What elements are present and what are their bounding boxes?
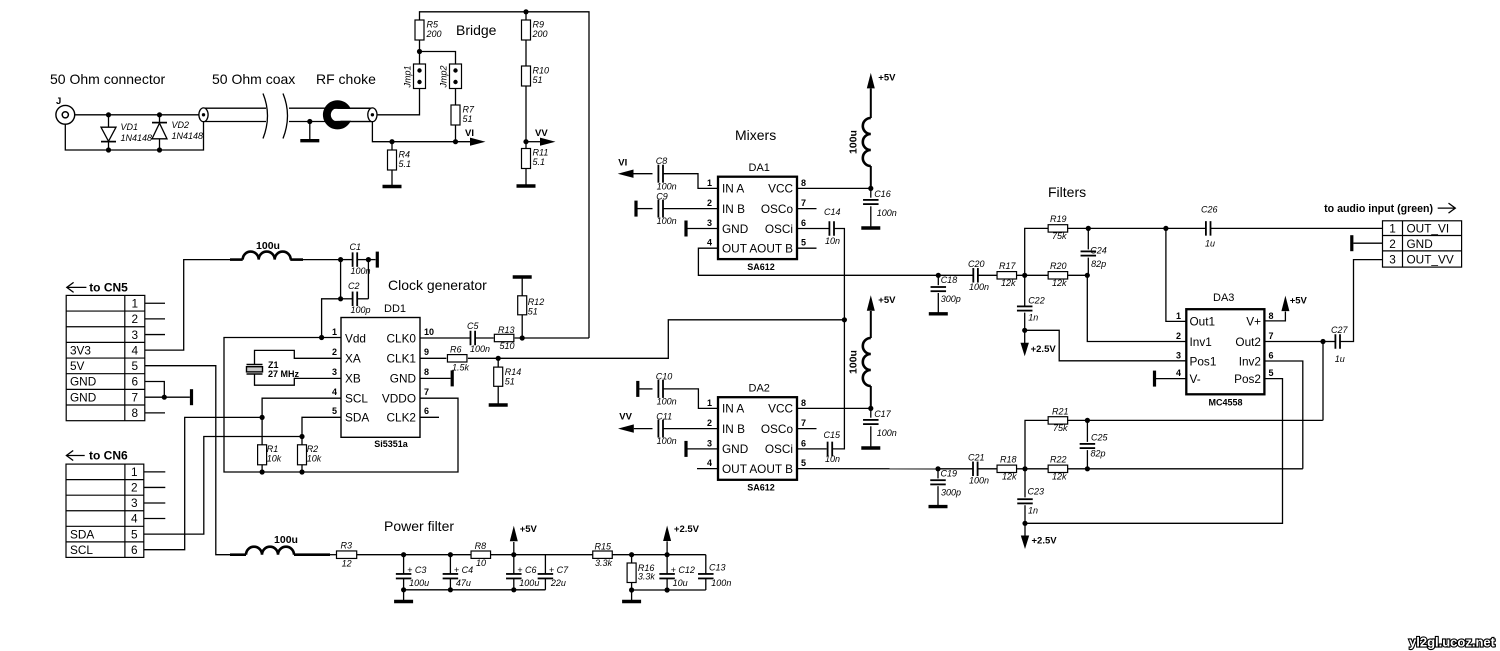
svg-text:C13: C13: [709, 563, 726, 573]
svg-text:5: 5: [132, 359, 139, 373]
svg-text:R3: R3: [341, 541, 353, 551]
svg-text:3: 3: [707, 438, 712, 448]
svg-text:MC4558: MC4558: [1208, 398, 1242, 408]
svg-text:100u: 100u: [519, 578, 539, 588]
svg-text:300p: 300p: [941, 488, 961, 498]
svg-text:100n: 100n: [969, 476, 989, 486]
svg-text:1: 1: [1389, 222, 1396, 236]
svg-text:C19: C19: [941, 469, 958, 479]
svg-text:C18: C18: [941, 275, 958, 285]
svg-text:C24: C24: [1090, 246, 1107, 256]
svg-text:5: 5: [332, 406, 337, 416]
svg-text:7: 7: [132, 390, 139, 404]
svg-text:1N4148: 1N4148: [121, 133, 153, 143]
svg-text:1: 1: [707, 178, 712, 188]
svg-text:R21: R21: [1052, 407, 1069, 417]
svg-text:4: 4: [707, 238, 712, 248]
svg-text:100u: 100u: [848, 130, 860, 154]
svg-text:VI: VI: [618, 158, 627, 169]
svg-text:1N4148: 1N4148: [172, 131, 204, 141]
svg-text:2: 2: [132, 312, 139, 326]
svg-text:Inv2: Inv2: [1239, 354, 1261, 368]
svg-text:SDA: SDA: [345, 411, 369, 425]
svg-text:SA612: SA612: [747, 483, 775, 493]
svg-text:100n: 100n: [351, 266, 371, 276]
svg-text:4: 4: [1176, 368, 1181, 378]
svg-text:J: J: [56, 96, 61, 107]
svg-text:C5: C5: [467, 321, 479, 331]
svg-text:10n: 10n: [825, 454, 840, 464]
svg-text:Clock generator: Clock generator: [388, 277, 487, 293]
svg-text:27 MHz: 27 MHz: [268, 369, 300, 379]
svg-text:GND: GND: [390, 372, 416, 386]
svg-text:C27: C27: [1331, 325, 1349, 335]
svg-text:8: 8: [424, 367, 429, 377]
svg-text:DA3: DA3: [1213, 292, 1234, 304]
svg-text:3.3k: 3.3k: [595, 558, 613, 568]
svg-text:+ C12: + C12: [671, 565, 695, 575]
svg-text:5V: 5V: [70, 359, 85, 373]
svg-text:R12: R12: [528, 297, 545, 307]
svg-text:200: 200: [426, 29, 442, 39]
svg-text:V-: V-: [1190, 372, 1201, 386]
svg-text:OUT B: OUT B: [757, 242, 793, 256]
svg-text:Pos1: Pos1: [1190, 354, 1217, 368]
svg-text:+5V: +5V: [520, 524, 538, 535]
svg-text:C16: C16: [874, 189, 891, 199]
svg-text:100u: 100u: [848, 350, 860, 374]
svg-text:SCL: SCL: [345, 392, 368, 406]
svg-text:22u: 22u: [550, 578, 566, 588]
svg-text:1: 1: [332, 327, 337, 337]
svg-text:Pos2: Pos2: [1234, 372, 1261, 386]
svg-text:+ C6: + C6: [517, 565, 536, 575]
svg-text:R9: R9: [533, 20, 545, 30]
svg-text:1: 1: [131, 465, 138, 479]
svg-text:100n: 100n: [657, 216, 677, 226]
svg-text:C11: C11: [656, 412, 672, 422]
svg-text:4: 4: [131, 512, 138, 526]
svg-text:to audio input (green): to audio input (green): [1324, 203, 1433, 215]
svg-text:DA2: DA2: [749, 383, 770, 395]
svg-text:VDDO: VDDO: [382, 392, 416, 406]
svg-text:OSCi: OSCi: [765, 442, 793, 456]
svg-text:IN B: IN B: [722, 202, 745, 216]
svg-text:DA1: DA1: [749, 162, 770, 174]
svg-text:Out2: Out2: [1235, 335, 1261, 349]
svg-text:50 Ohm connector: 50 Ohm connector: [50, 71, 166, 87]
svg-text:Mixers: Mixers: [735, 127, 776, 143]
svg-text:12k: 12k: [1052, 472, 1067, 482]
svg-text:V+: V+: [1246, 315, 1261, 329]
svg-text:100n: 100n: [877, 428, 897, 438]
svg-text:R10: R10: [533, 66, 550, 76]
svg-text:9: 9: [424, 347, 429, 357]
svg-text:12k: 12k: [1002, 472, 1017, 482]
svg-text:SDA: SDA: [70, 527, 94, 541]
svg-text:7: 7: [801, 198, 806, 208]
svg-text:1n: 1n: [1028, 506, 1038, 516]
svg-text:Filters: Filters: [1048, 184, 1086, 200]
svg-text:7: 7: [1269, 331, 1274, 341]
svg-text:100n: 100n: [711, 578, 731, 588]
svg-text:3: 3: [132, 328, 139, 342]
svg-text:GND: GND: [70, 375, 96, 389]
svg-text:5: 5: [131, 527, 138, 541]
svg-text:Vdd: Vdd: [345, 331, 366, 345]
svg-text:1: 1: [132, 296, 139, 310]
svg-text:OUT_VV: OUT_VV: [1407, 252, 1454, 266]
svg-text:51: 51: [533, 75, 543, 85]
svg-text:Jmp2: Jmp2: [439, 65, 449, 88]
svg-text:3: 3: [131, 496, 138, 510]
svg-text:R4: R4: [399, 150, 411, 160]
svg-text:10: 10: [476, 558, 486, 568]
svg-text:R20: R20: [1050, 261, 1067, 271]
svg-text:R13: R13: [498, 325, 515, 335]
svg-text:82p: 82p: [1091, 259, 1106, 269]
svg-text:2: 2: [1389, 237, 1396, 251]
svg-text:OUT_VI: OUT_VI: [1407, 222, 1450, 236]
svg-text:C15: C15: [824, 430, 842, 440]
svg-text:VD2: VD2: [172, 120, 190, 130]
svg-text:100n: 100n: [657, 182, 677, 192]
svg-text:5.1: 5.1: [533, 157, 546, 167]
svg-text:8: 8: [132, 406, 139, 420]
svg-text:RF choke: RF choke: [316, 71, 376, 87]
svg-text:C23: C23: [1028, 487, 1045, 497]
svg-text:10: 10: [424, 327, 434, 337]
svg-text:2: 2: [1176, 331, 1181, 341]
svg-text:+2.5V: +2.5V: [1031, 344, 1057, 355]
svg-text:8: 8: [801, 178, 806, 188]
svg-text:GND: GND: [1407, 237, 1433, 251]
svg-text:6: 6: [801, 438, 806, 448]
svg-text:to CN6: to CN6: [89, 449, 128, 463]
svg-text:OSCo: OSCo: [761, 422, 794, 436]
svg-text:+5V: +5V: [1290, 296, 1308, 307]
svg-text:1u: 1u: [1205, 239, 1215, 249]
svg-text:200: 200: [532, 29, 548, 39]
svg-text:GND: GND: [722, 442, 748, 456]
svg-text:10u: 10u: [673, 578, 688, 588]
svg-text:5: 5: [1269, 368, 1274, 378]
svg-text:3: 3: [332, 367, 337, 377]
svg-text:R6: R6: [450, 345, 462, 355]
svg-text:75k: 75k: [1053, 423, 1068, 433]
svg-text:C21: C21: [968, 453, 985, 463]
svg-text:R11: R11: [533, 148, 549, 158]
svg-text:51: 51: [528, 307, 538, 317]
svg-text:3V3: 3V3: [70, 343, 91, 357]
svg-text:3: 3: [707, 218, 712, 228]
svg-text:47u: 47u: [456, 578, 471, 588]
svg-text:100n: 100n: [470, 344, 490, 354]
svg-text:Power filter: Power filter: [384, 518, 454, 534]
svg-text:510: 510: [500, 341, 515, 351]
svg-text:C20: C20: [968, 259, 985, 269]
svg-text:SA612: SA612: [747, 262, 775, 272]
svg-text:100u: 100u: [274, 534, 298, 546]
svg-text:OSCo: OSCo: [761, 202, 794, 216]
svg-text:+ C4: + C4: [454, 565, 473, 575]
svg-text:R17: R17: [999, 261, 1017, 271]
svg-text:50 Ohm coax: 50 Ohm coax: [212, 71, 295, 87]
svg-text:6: 6: [1269, 350, 1274, 360]
svg-text:OSCi: OSCi: [765, 222, 793, 236]
svg-text:R5: R5: [427, 20, 439, 30]
svg-text:+5V: +5V: [878, 295, 896, 306]
svg-text:CLK1: CLK1: [386, 352, 416, 366]
svg-text:+5V: +5V: [878, 73, 896, 84]
svg-text:1n: 1n: [1028, 313, 1038, 323]
svg-text:Bridge: Bridge: [456, 22, 497, 38]
svg-text:1u: 1u: [1335, 354, 1345, 364]
svg-text:C14: C14: [824, 207, 841, 217]
svg-text:75k: 75k: [1052, 231, 1067, 241]
svg-text:Jmp1: Jmp1: [403, 65, 413, 88]
svg-text:VD1: VD1: [121, 122, 139, 132]
svg-text:XB: XB: [345, 372, 361, 386]
svg-text:82p: 82p: [1091, 449, 1106, 459]
svg-text:C2: C2: [348, 281, 360, 291]
svg-text:10k: 10k: [267, 454, 282, 464]
svg-text:12k: 12k: [1052, 278, 1067, 288]
svg-text:6: 6: [131, 543, 138, 557]
svg-text:+ C7: + C7: [549, 565, 569, 575]
svg-text:yl2gl.ucoz.net: yl2gl.ucoz.net: [1409, 635, 1496, 650]
svg-text:R14: R14: [505, 367, 522, 377]
svg-text:SCL: SCL: [70, 543, 93, 557]
svg-text:4: 4: [332, 387, 337, 397]
svg-text:IN A: IN A: [722, 402, 744, 416]
svg-text:3: 3: [1176, 350, 1181, 360]
svg-text:R19: R19: [1050, 214, 1067, 224]
svg-text:300p: 300p: [941, 294, 961, 304]
svg-text:1: 1: [707, 398, 712, 408]
svg-text:Out1: Out1: [1190, 315, 1216, 329]
svg-text:Si5351a: Si5351a: [374, 439, 409, 449]
svg-text:VCC: VCC: [768, 182, 793, 196]
svg-text:OUT A: OUT A: [722, 462, 757, 476]
svg-text:R2: R2: [307, 444, 319, 454]
svg-text:12k: 12k: [1001, 278, 1016, 288]
svg-text:100p: 100p: [351, 305, 371, 315]
svg-text:to CN5: to CN5: [89, 281, 128, 295]
svg-text:IN B: IN B: [722, 422, 745, 436]
svg-text:4: 4: [132, 343, 139, 357]
svg-text:6: 6: [132, 375, 139, 389]
svg-text:6: 6: [424, 406, 429, 416]
svg-text:C26: C26: [1201, 205, 1218, 215]
svg-text:2: 2: [332, 347, 337, 357]
svg-text:C22: C22: [1028, 296, 1045, 306]
svg-text:C9: C9: [656, 192, 668, 202]
svg-text:5: 5: [801, 238, 806, 248]
svg-text:VI: VI: [465, 128, 474, 139]
svg-text:C17: C17: [874, 409, 892, 419]
svg-text:+2.5V: +2.5V: [674, 524, 700, 535]
svg-text:R15: R15: [595, 542, 613, 552]
svg-text:C1: C1: [350, 242, 362, 252]
svg-text:51: 51: [463, 114, 473, 124]
svg-text:1.5k: 1.5k: [452, 363, 470, 373]
svg-text:GND: GND: [722, 222, 748, 236]
svg-text:100n: 100n: [969, 282, 989, 292]
svg-text:100n: 100n: [877, 208, 897, 218]
svg-text:6: 6: [801, 218, 806, 228]
svg-text:100n: 100n: [657, 397, 677, 407]
svg-text:IN A: IN A: [722, 182, 744, 196]
svg-text:4: 4: [707, 458, 712, 468]
svg-text:C10: C10: [656, 372, 673, 382]
svg-text:+2.5V: +2.5V: [1032, 536, 1058, 547]
svg-text:VV: VV: [535, 128, 548, 139]
svg-text:100u: 100u: [409, 578, 429, 588]
svg-text:CLK0: CLK0: [386, 331, 416, 345]
svg-text:100u: 100u: [256, 240, 280, 252]
svg-text:2: 2: [131, 481, 138, 495]
svg-text:R18: R18: [1000, 455, 1017, 465]
svg-text:Inv1: Inv1: [1190, 335, 1212, 349]
svg-text:R8: R8: [475, 541, 487, 551]
svg-text:7: 7: [424, 387, 429, 397]
svg-text:51: 51: [505, 377, 515, 387]
svg-text:8: 8: [1269, 311, 1274, 321]
svg-text:10n: 10n: [825, 236, 840, 246]
svg-text:8: 8: [801, 398, 806, 408]
svg-text:VCC: VCC: [768, 402, 793, 416]
svg-text:12: 12: [342, 559, 352, 569]
svg-text:7: 7: [801, 418, 806, 428]
svg-text:R7: R7: [463, 105, 475, 115]
svg-text:OUT B: OUT B: [757, 462, 793, 476]
svg-text:5: 5: [801, 458, 806, 468]
svg-text:1: 1: [1176, 311, 1181, 321]
svg-text:2: 2: [707, 198, 712, 208]
svg-text:GND: GND: [70, 390, 96, 404]
svg-text:CLK2: CLK2: [386, 411, 416, 425]
svg-text:100n: 100n: [657, 436, 677, 446]
svg-text:XA: XA: [345, 352, 361, 366]
svg-text:+ C3: + C3: [407, 565, 426, 575]
svg-text:R22: R22: [1050, 455, 1067, 465]
svg-text:DD1: DD1: [384, 303, 406, 315]
svg-text:VV: VV: [619, 412, 632, 423]
svg-text:3: 3: [1389, 252, 1396, 266]
svg-text:3.3k: 3.3k: [638, 572, 656, 582]
svg-text:R1: R1: [267, 444, 279, 454]
svg-text:5.1: 5.1: [399, 159, 412, 169]
svg-text:OUT A: OUT A: [722, 242, 757, 256]
svg-text:10k: 10k: [307, 454, 322, 464]
svg-text:C8: C8: [656, 156, 668, 166]
svg-text:2: 2: [707, 418, 712, 428]
svg-text:C25: C25: [1091, 433, 1109, 443]
